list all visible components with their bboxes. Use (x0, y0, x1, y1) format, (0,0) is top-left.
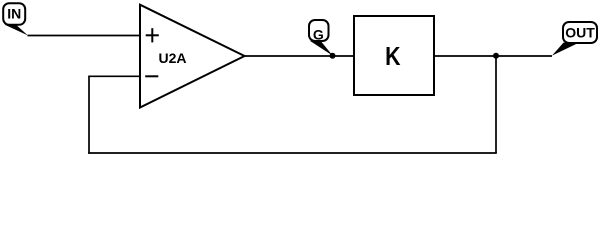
svg-text:G: G (313, 26, 324, 42)
wire feedback to op-amp - input (88, 75, 140, 77)
wire feedback: bottom run (88, 152, 497, 154)
wire op-amp output to K block (245, 55, 354, 57)
wire feedback: up left side (88, 76, 90, 154)
net flag OUT (552, 22, 597, 56)
node junction at feedback tap (493, 53, 499, 59)
block K (354, 16, 434, 95)
node G junction dot (330, 53, 336, 59)
svg-text:K: K (385, 42, 400, 72)
wire IN to op-amp + input (28, 35, 141, 37)
svg-text:OUT: OUT (565, 25, 595, 41)
svg-text:U2A: U2A (158, 50, 186, 66)
wire K block to OUT (434, 55, 552, 57)
net flag IN (3, 3, 28, 35)
op-amp U2A (140, 5, 245, 108)
svg-text:IN: IN (7, 6, 21, 22)
net flag G (309, 20, 333, 56)
wire feedback: down from junction (495, 56, 497, 153)
